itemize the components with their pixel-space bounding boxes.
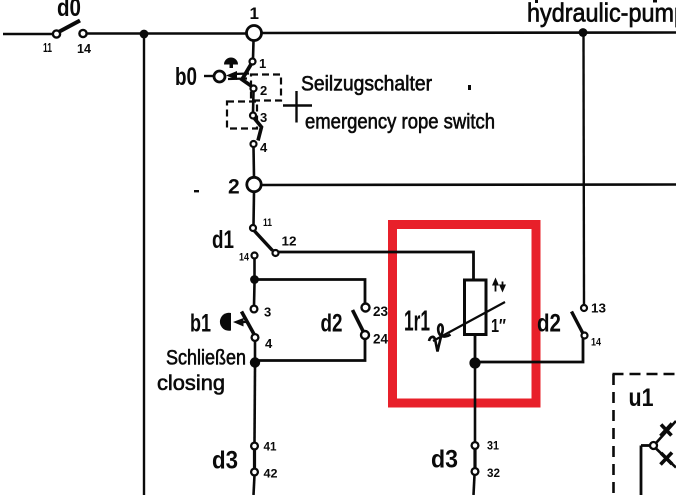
contact d2 left blade — [353, 310, 364, 332]
switch b0 blade 3-4 — [255, 119, 262, 141]
svg-text:4: 4 — [265, 336, 273, 351]
contact d3 right pin 32 — [472, 468, 479, 475]
svg-text:23: 23 — [373, 303, 388, 319]
contact d2 left pin 24 — [361, 331, 369, 339]
contact d2 right blade — [572, 312, 584, 334]
svg-text:3: 3 — [260, 110, 267, 125]
svg-text:42: 42 — [264, 467, 278, 481]
svg-text:emergency rope switch: emergency rope switch — [305, 111, 495, 134]
svg-text:2: 2 — [228, 176, 240, 199]
contact d1 blade — [255, 231, 273, 251]
svg-text:11: 11 — [263, 217, 272, 229]
switch b0 actuator arrowhead — [226, 71, 237, 80]
svg-text:32: 32 — [487, 466, 500, 480]
pushbutton b1 arrowhead — [233, 318, 244, 327]
down arrow — [502, 282, 504, 288]
svg-text:41: 41 — [264, 440, 277, 454]
switch b0 blade — [242, 64, 252, 87]
mechanical link cross vertical — [295, 91, 297, 123]
rectifier u1 lower branch — [656, 449, 676, 468]
pushbutton b1 blade — [242, 312, 256, 337]
wire top rail right segment — [262, 31, 676, 34]
up arrowhead — [492, 278, 499, 286]
svg-text:1: 1 — [259, 56, 266, 71]
pushbutton b1 head — [220, 313, 231, 331]
junction dot resistor — [469, 357, 480, 368]
switch b0 contact 3 — [250, 113, 256, 119]
wire node1 to b0 contact 1 — [252, 41, 255, 59]
wire resistor to junction — [474, 335, 477, 360]
rectifier u1 lower diode — [661, 453, 673, 465]
svg-text:2: 2 — [260, 83, 267, 98]
svg-text:d3: d3 — [431, 446, 458, 474]
switch b0 mushroom head — [224, 58, 238, 69]
wire d1-12 to resistor branch — [279, 252, 474, 280]
contact d1 pin 12 — [273, 250, 279, 256]
contact d2 right pin 14 — [582, 333, 588, 339]
wire contact2 to contact3 — [252, 92, 255, 114]
svg-text:11: 11 — [43, 40, 52, 55]
wire junction to b1 contact 3 — [253, 283, 256, 306]
rectifier u1 wire left — [641, 444, 650, 447]
resistor 1r1 body — [465, 280, 487, 335]
rectifier u1 node circle — [650, 442, 657, 449]
svg-text:hydraulic-pump: hydraulic-pump — [527, 0, 676, 28]
svg-text:24: 24 — [373, 331, 388, 347]
rectifier u1 upper branch — [656, 421, 676, 443]
svg-text:31: 31 — [487, 439, 499, 453]
switch b0 actuator circle — [214, 71, 225, 82]
contact d3 right bridge — [473, 449, 476, 469]
switch b0 actuator arrow shaft — [234, 72, 249, 75]
wire b1-4 to junction — [254, 341, 257, 359]
node 2 — [247, 177, 261, 191]
junction dot d1-b1 — [250, 275, 259, 284]
svg-text:d3: d3 — [212, 447, 238, 475]
switch d0 contact 11 — [53, 30, 60, 37]
wire d3 left to bottom — [254, 475, 255, 495]
pushbutton b1 contact 3 — [251, 306, 258, 313]
svg-text:14: 14 — [591, 337, 602, 349]
resistor 1r1 temperature arrow — [433, 302, 505, 341]
up arrow — [495, 282, 497, 292]
red annotation rectangle — [393, 225, 537, 404]
rope switch dashed box lower — [227, 102, 257, 129]
rectifier u1 dashed box top edge — [613, 373, 676, 376]
svg-text:14: 14 — [77, 41, 92, 56]
pushbutton b1 arrow shaft — [241, 321, 247, 323]
rope switch dashed box upper — [251, 75, 281, 101]
wire d1-14 down — [253, 259, 256, 277]
svg-text:3: 3 — [264, 305, 271, 320]
junction dot left rail — [140, 30, 149, 39]
svg-text:1r1: 1r1 — [404, 306, 430, 338]
svg-text:d1: d1 — [212, 226, 234, 254]
wire top rail left segment — [3, 33, 53, 36]
wire junction to d3 left — [253, 367, 256, 443]
switch b0 contact 4 — [251, 141, 257, 147]
svg-text:1: 1 — [250, 4, 259, 23]
contact d3 left pin 41 — [251, 443, 258, 450]
theta symbol — [429, 324, 451, 351]
rectifier u1 wire down — [640, 446, 643, 495]
switch d0 blade — [60, 21, 81, 32]
contact d1 pin 11 — [250, 225, 256, 231]
junction dot b1-d2 — [250, 357, 260, 367]
svg-text:d2: d2 — [537, 310, 561, 338]
switch b0 actuator link lower line — [228, 77, 247, 80]
svg-text:u1: u1 — [629, 384, 654, 412]
switch b0 contact 2 — [251, 86, 257, 92]
wire junction to d2 right — [479, 339, 583, 363]
speckle mark — [468, 85, 471, 90]
node 1 — [247, 26, 262, 41]
down arrowhead — [499, 285, 506, 293]
wire junction to d2 branch — [255, 280, 366, 305]
wire contact4 to node2 — [252, 147, 255, 177]
speckle dash — [194, 190, 199, 192]
contact d2 left pin 23 — [362, 304, 370, 312]
wire b0 stub — [204, 75, 214, 77]
svg-text:4: 4 — [260, 140, 268, 155]
svg-text:d0: d0 — [57, 0, 81, 22]
wire left vertical bus — [143, 34, 145, 495]
svg-text:b0: b0 — [175, 63, 197, 91]
wire top rail main segment — [87, 32, 246, 35]
wire junction to d3 right — [474, 368, 477, 442]
contact d2 right pin 13 — [581, 305, 587, 311]
svg-text:Schließen: Schließen — [166, 347, 246, 370]
rectifier u1 upper diode — [661, 424, 673, 437]
mechanical link cross horizontal — [283, 104, 312, 106]
svg-text:Seilzugschalter: Seilzugschalter — [301, 73, 432, 96]
wire node2 rail right — [261, 183, 676, 186]
pushbutton b1 contact 4 — [252, 334, 259, 341]
svg-text:14: 14 — [239, 252, 250, 264]
contact d1 pin 14 — [252, 253, 258, 259]
svg-text:13: 13 — [591, 301, 606, 316]
contact d3 left pin 42 — [251, 469, 258, 476]
rectifier u1 dashed box left edge — [612, 374, 615, 495]
wire node2 to d1 — [252, 192, 255, 225]
svg-text:d2: d2 — [321, 310, 343, 338]
svg-text:b1: b1 — [190, 310, 211, 338]
svg-text:closing: closing — [157, 372, 225, 395]
switch d0 contact 14 — [79, 30, 86, 37]
wire d2 right vertical from top junction — [582, 36, 585, 305]
wire d2-24 to junction — [258, 339, 365, 361]
svg-text:12: 12 — [282, 234, 297, 249]
wire d3 right to bottom — [474, 475, 475, 495]
svg-text:1″: 1″ — [491, 316, 506, 336]
contact d3 right pin 31 — [472, 442, 479, 449]
contact d3 left bridge — [253, 449, 256, 469]
speckle text remnant above right — [653, 0, 657, 3]
junction dot hydraulic-pump branch — [579, 28, 588, 37]
switch b0 contact 1 — [250, 59, 256, 65]
speckle text remnant above — [535, 0, 538, 3]
